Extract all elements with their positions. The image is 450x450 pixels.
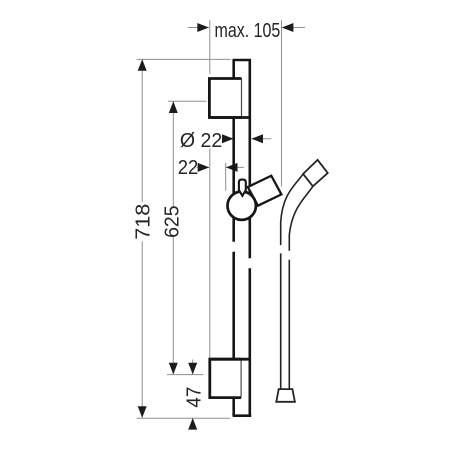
extension line: top bracket centre (625 ref) xyxy=(168,100,207,102)
arrow Ø22 (points right at rail left edge) xyxy=(222,134,234,143)
extension line: rail top (718 ref) xyxy=(137,58,231,60)
extension line: holder outer face (max.105 right) xyxy=(281,20,283,186)
wall bar (rail) xyxy=(233,59,252,416)
svg-text:625: 625 xyxy=(162,206,184,238)
top wall bracket xyxy=(209,79,249,118)
bottom wall bracket xyxy=(210,359,251,397)
bracket top edge across rail xyxy=(210,358,251,361)
arrow Ø22 (points left at rail right edge) xyxy=(251,134,263,143)
svg-text:718: 718 xyxy=(133,204,155,240)
dimension line 47 upper tail xyxy=(192,360,194,375)
hose inner line lower xyxy=(280,253,282,388)
dimension line 47 lower tail xyxy=(192,418,194,429)
svg-text:47: 47 xyxy=(183,387,205,408)
rail left edge upper xyxy=(232,59,235,241)
rail right edge upper xyxy=(249,59,252,258)
rail left edge lower (after break) xyxy=(232,252,235,417)
slider knob (circle) xyxy=(228,192,256,220)
dimension line Ø22 right tail xyxy=(252,138,272,140)
hose upper curve inner line xyxy=(281,174,303,245)
bracket bottom edge across rail xyxy=(209,116,249,119)
dimension line max.105 right tail xyxy=(282,27,305,29)
rail bottom edge xyxy=(233,414,251,417)
svg-text:max. 105: max. 105 xyxy=(215,20,281,42)
dimension line 22 right tail xyxy=(226,166,244,168)
dimension line 22 left tail xyxy=(197,166,209,168)
dimension line 718 lower segment xyxy=(141,241,143,417)
svg-text:22: 22 xyxy=(178,157,199,179)
arrow 718 top (points up) xyxy=(138,59,147,71)
extension line: wall plane lower run xyxy=(209,149,211,360)
rail top edge xyxy=(233,59,251,62)
arrow 47 top (points down at bracket centre line) xyxy=(188,363,197,375)
extension line: rail bottom (718/47 ref) xyxy=(137,417,231,419)
arrow 718 bottom (points down) xyxy=(138,406,147,418)
clamp tab on slider xyxy=(239,180,246,196)
hose outer line lower xyxy=(288,260,290,389)
rail right edge lower (after break) xyxy=(249,268,252,416)
dimension line max.105 left tail xyxy=(188,27,209,29)
hose bottom fitting (cone) xyxy=(276,389,295,402)
dimension line 718 upper segment xyxy=(141,59,143,202)
arrow 47 bottom (points up at rail bottom line) xyxy=(188,418,197,430)
dimension line Ø22 left tail xyxy=(222,138,234,140)
arrowheads xyxy=(138,23,294,430)
arrow 625 top (points up) xyxy=(169,101,178,113)
hose top fitting (nut) xyxy=(303,160,328,186)
shower holder (angled) xyxy=(248,176,282,206)
extension line: wall plane upper (max.105 left) xyxy=(209,20,211,73)
hose upper curve outer line xyxy=(289,186,313,251)
extension line: slider outer face (22 ref) xyxy=(225,163,227,191)
dimension line 625 lower segment xyxy=(172,237,174,374)
arrow max.105 left (points right) xyxy=(197,23,209,32)
arrow 22 (points left at slider face) xyxy=(226,163,238,172)
arrow 22 (points right at wall line) xyxy=(198,163,210,172)
dimension line 625 upper segment xyxy=(172,101,174,206)
thin extension/dimension lines xyxy=(137,20,305,429)
svg-text:Ø 22: Ø 22 xyxy=(180,130,222,152)
arrow 625 bottom (points down) xyxy=(169,363,178,375)
extension line: bottom bracket centre (625/47 ref) xyxy=(167,374,203,376)
arrow max.105 right (points left) xyxy=(282,23,294,32)
